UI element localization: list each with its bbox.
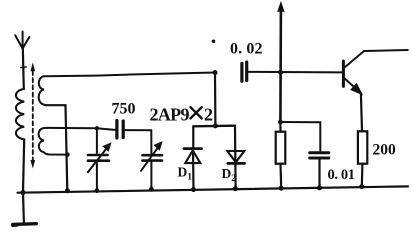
junction: D2 bottom on rail [233,186,238,191]
svg-text:D2: D2 [222,166,237,184]
wire: diode top bar [193,124,235,127]
junction: R1 bottom on rail [279,186,284,191]
capacitor C5 0.01 [310,153,329,188]
transformer T1 primary winding [16,89,24,193]
wire: tank circuit top (L3 top to C750) [47,128,116,130]
ground rail (bottom bus) [18,186,409,192]
wire: branch to C5 top [280,122,320,151]
variable capacitor C1 [88,128,111,190]
junction: B+ line and base wire [278,70,283,75]
diode D1 [184,149,202,190]
junction: C3 bottom on rail [149,187,154,192]
capacitor C4 0.02 [242,62,344,81]
svg-text:2: 2 [204,105,213,125]
svg-text:200: 200 [373,142,397,159]
transformer core (dashed, adjustable) [31,64,35,167]
resistor R1 [276,122,286,188]
junction: C5 bottom on rail [317,185,322,190]
junction: common line to ground rail [65,188,70,193]
wire: L2 top to node A (top rail) [44,73,215,77]
wire: L2 bottom lead to common vertical [47,105,68,191]
ground [12,193,36,226]
antenna [15,32,29,90]
wire: emitter down to R2 [361,93,362,131]
junction: antenna coil to rail [20,190,25,195]
junction: varcap C1 top [95,126,99,130]
svg-text:D1: D1 [178,165,193,183]
svg-text:750: 750 [112,101,136,118]
junction: diode bar [213,123,218,128]
junction: L3 bottom to common line [65,152,70,157]
svg-text:0. 02: 0. 02 [230,41,263,58]
wire: bar to D1 top [192,126,194,147]
svg-text:0. 01: 0. 01 [328,167,356,183]
resistor R2 200 [358,131,367,186]
power feed line B+ with arrow [278,3,284,123]
junction: D1 bottom on rail [191,187,196,192]
transformer T1 secondary winding L3 (bottom) [39,128,68,155]
junction: B+ line / R1 / C5 branch [278,120,283,125]
wire: collector to right edge [364,50,408,51]
stray dot [212,40,216,44]
wire: node A down to diode bar [214,73,217,126]
node A junction (top wire / C4 / detector branch) [213,70,218,75]
variable capacitor C3 [141,142,162,189]
junction: C1 bottom on rail [95,188,100,193]
diode D2 [227,151,244,189]
capacitor C2 750 [117,121,151,154]
transformer T1 secondary winding L2 (top) [39,76,47,105]
transistor Q1 [343,51,364,94]
wire: bar to D2 top [234,126,236,151]
svg-text:2AP9: 2AP9 [150,105,190,125]
junction: R2 bottom on rail [359,184,364,189]
